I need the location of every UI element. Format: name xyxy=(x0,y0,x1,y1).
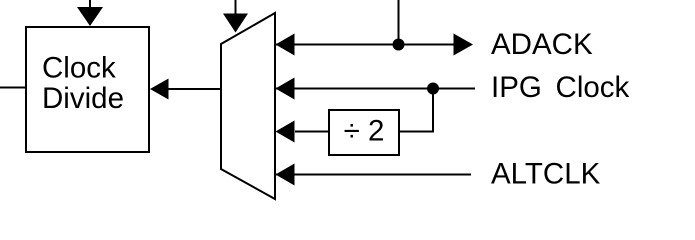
svg-text:Divide: Divide xyxy=(42,82,124,115)
wire: input stub into Clock Divide left side xyxy=(0,87,26,89)
label Clock Divide xyxy=(42,52,124,116)
wire: IPG Clock net horizontal xyxy=(274,88,475,90)
Clock Divide block U1 xyxy=(26,27,149,152)
mux U2 (clock source multiplexer) xyxy=(221,13,275,199)
wire: ALTCLK net horizontal xyxy=(274,174,471,176)
wire: riser from ADACK junction to top xyxy=(398,0,400,45)
arrowhead into Clock Divide top xyxy=(77,7,103,26)
wire: drop from IPG junction down xyxy=(432,89,434,132)
wire: clock select into Clock Divide top xyxy=(89,0,91,9)
svg-text:IPG Clock: IPG Clock xyxy=(491,71,630,104)
junction dot on IPG Clock net xyxy=(427,83,439,95)
wire: ADACK net horizontal xyxy=(274,44,454,46)
svg-text:ALTCLK: ALTCLK xyxy=(491,158,601,191)
svg-text:Clock: Clock xyxy=(42,52,116,85)
wire: mux output to Clock Divide xyxy=(166,88,221,90)
arrowhead IPG Clock into mux input 2 xyxy=(276,78,295,100)
wire: divide-by-2 output to mux xyxy=(295,131,328,133)
arrowhead ADACK outgoing right xyxy=(454,34,474,56)
wire: select into mux top xyxy=(235,0,237,15)
arrowhead into mux top edge xyxy=(223,14,248,33)
arrowhead divide-by-2 output into mux input 3 xyxy=(276,121,295,143)
arrowhead ADACK into mux input 1 xyxy=(276,34,295,56)
svg-text:÷ 2: ÷ 2 xyxy=(344,115,385,148)
divide-by-2 block U3 xyxy=(329,110,399,155)
wire: into divide-by-2 input xyxy=(400,131,434,133)
svg-text:ADACK: ADACK xyxy=(491,28,593,61)
arrowhead ALTCLK into mux input 4 xyxy=(276,164,295,186)
arrowhead into Clock Divide right side xyxy=(150,79,169,100)
junction dot on ADACK net xyxy=(393,39,405,51)
